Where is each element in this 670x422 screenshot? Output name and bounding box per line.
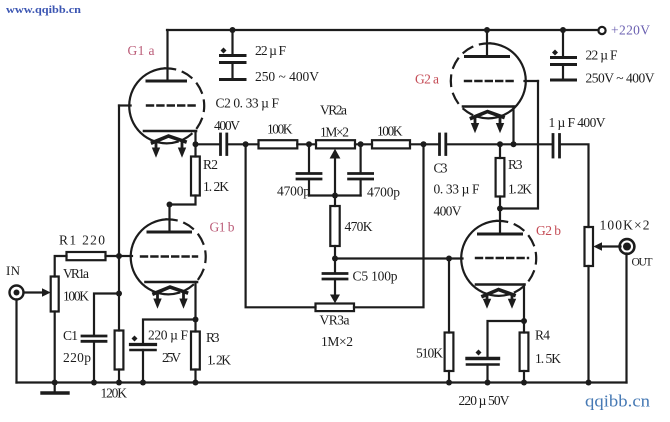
- wire: 510K bottom lead: [448, 371, 450, 383]
- node: rail tap for 22uF left: [230, 27, 236, 33]
- svg-text:VR2a: VR2a: [320, 103, 347, 118]
- svg-text:R2: R2: [203, 157, 218, 172]
- wire: 470K bottom lead: [334, 246, 336, 259]
- resistor R2 1.2K body: [191, 157, 200, 196]
- svg-text:qqibb.cn: qqibb.cn: [585, 392, 651, 411]
- node: output pot on bus: [586, 380, 592, 386]
- terminal IN: [10, 286, 24, 300]
- svg-text:G2 a: G2 a: [415, 72, 439, 87]
- wire: main signal line G1a cathode to C2: [196, 143, 220, 145]
- triode G2a grid (dashed): [465, 80, 516, 82]
- node: rail tap for G2a plate: [484, 27, 490, 33]
- capacitor C1 220p: [82, 336, 106, 383]
- wire: G2a grid stub right: [525, 80, 539, 82]
- capacitor C3 0.33uF plates: [440, 134, 446, 155]
- wire: grid bus down to R1 node: [118, 106, 120, 257]
- wire: C2-node down to VR3a left: [246, 144, 316, 307]
- node: G1a cathode junction: [193, 141, 199, 147]
- wire: C3 to G2a cathode node: [447, 143, 552, 145]
- node: C3 input junction: [421, 141, 427, 147]
- triode G2b envelope: [461, 221, 536, 296]
- svg-text:100K×2: 100K×2: [600, 218, 650, 233]
- wire: grid bus down to 120K: [118, 256, 120, 331]
- wire: VR1a top to R1: [55, 256, 67, 277]
- node: rail tap for 22uF right: [560, 27, 566, 33]
- wire: +220V top supply rail: [167, 29, 599, 31]
- wire: 470K top lead: [334, 196, 336, 207]
- svg-text:IN: IN: [6, 263, 21, 278]
- wire: R2 top lead: [194, 144, 196, 156]
- capacitor 1uF 400V plates: [553, 135, 560, 158]
- wire: G1b cathode drop: [194, 282, 196, 320]
- terminal OUT: [620, 239, 635, 254]
- wire: IN down to ground bus: [15, 300, 17, 383]
- svg-text:22 µ F: 22 µ F: [255, 43, 286, 58]
- svg-text:250 ~ 400V: 250 ~ 400V: [255, 69, 319, 84]
- svg-text:1. 5K: 1. 5K: [535, 351, 561, 366]
- potentiometer VR1a 100K body: [51, 277, 59, 312]
- wire: R3 left bottom lead: [194, 370, 196, 383]
- svg-text:R3: R3: [508, 157, 523, 172]
- triode G1a cathode bar: [144, 130, 196, 133]
- svg-text:C3: C3: [434, 161, 448, 176]
- triode G1a filament tent: [153, 136, 186, 143]
- node: C1 tap: [116, 291, 122, 297]
- svg-text:www.qqibb.cn: www.qqibb.cn: [6, 4, 81, 16]
- svg-text:220 µ 50V: 220 µ 50V: [459, 393, 510, 408]
- node: G1b plate junction: [167, 202, 173, 208]
- svg-text:220 µ F: 220 µ F: [148, 328, 188, 343]
- wire: G1a plate lead from rail: [166, 30, 168, 81]
- node: 510K on bus: [446, 380, 452, 386]
- node: R3 right top: [497, 141, 503, 147]
- svg-text:1M×2: 1M×2: [320, 125, 349, 140]
- triode G2a cathode arrows: [471, 117, 504, 134]
- capacitor C2 0.33uF plates: [221, 134, 227, 155]
- resistor R4 1.5K body: [520, 333, 529, 372]
- svg-text:OUT: OUT: [632, 257, 653, 269]
- triode G1a envelope: [129, 68, 204, 143]
- wire: VR2a to 100K right: [355, 143, 372, 145]
- wire: R4 bottom lead: [523, 371, 525, 383]
- wire: 100K right to C3: [410, 143, 439, 145]
- wire: OUT shield down to bus: [625, 254, 627, 383]
- svg-text:C1: C1: [63, 328, 78, 343]
- svg-text:G1 a: G1 a: [128, 43, 155, 58]
- svg-text:400V: 400V: [214, 118, 240, 133]
- svg-text:100K: 100K: [63, 289, 89, 304]
- wire: R3 left top lead: [194, 320, 196, 332]
- ground symbol: [42, 383, 68, 394]
- capacitor C5 100p: [323, 259, 347, 304]
- svg-text:VR1a: VR1a: [63, 266, 89, 281]
- node: R4 on bus: [521, 380, 527, 386]
- triode G1a plate bar: [147, 80, 186, 83]
- triode G1b cathode bar: [146, 281, 198, 284]
- triode G2b cathode arrows: [483, 295, 516, 309]
- triode G2b cathode bar: [476, 283, 525, 286]
- svg-text:220p: 220p: [63, 350, 91, 365]
- triode G2a filament tent: [472, 112, 504, 119]
- capacitor 22uF left (electrolytic): [221, 30, 246, 80]
- node: G2a cathode tap: [511, 141, 517, 147]
- wire: C1 branch from grid-bus line: [94, 294, 119, 336]
- triode G2a cathode bar: [463, 105, 514, 108]
- svg-text:G2 b: G2 b: [536, 223, 561, 238]
- potentiometer 100Kx2 body: [585, 227, 594, 266]
- svg-text:400V: 400V: [434, 204, 462, 219]
- wire: 1uF to output pot: [561, 144, 589, 227]
- node: 510K top: [446, 256, 452, 262]
- wire: ground bus: [17, 381, 627, 383]
- wire: G1a cathode to main node: [194, 131, 196, 144]
- svg-text:100K: 100K: [267, 122, 293, 137]
- wire: R1 right lead: [106, 255, 120, 257]
- node: C2 output junction: [243, 141, 249, 147]
- resistor 120K body: [115, 331, 124, 370]
- wire: IN to VR1a wiper arrow: [24, 291, 43, 293]
- node: R1 / grids junction: [116, 253, 122, 259]
- svg-text:4700p: 4700p: [277, 184, 310, 199]
- svg-text:4700p: 4700p: [367, 185, 400, 200]
- wire: C3-node down to VR3a right: [354, 144, 424, 307]
- potentiometer VR2a 1Mx2 body: [316, 140, 355, 148]
- node: C1 on bus: [91, 380, 97, 386]
- wire: G2a cathode drop to main line: [512, 107, 514, 145]
- wire: cathode node to 220u cap: [488, 321, 525, 358]
- wire: G2b plate lead: [499, 209, 501, 235]
- node: 220u50V on bus: [485, 380, 491, 386]
- wire: G1b grid stub from node: [119, 255, 132, 257]
- terminal +220V open circle: [598, 27, 605, 34]
- triode G1b cathode arrows: [153, 292, 187, 309]
- wire: G1b plate lead: [168, 205, 170, 233]
- svg-text:25V: 25V: [162, 350, 181, 365]
- svg-text:R4: R4: [535, 328, 550, 343]
- triode G2b grid (dashed): [476, 257, 528, 259]
- wire: 510K top lead: [448, 259, 450, 333]
- wire: G1a grid stub left: [119, 104, 131, 106]
- svg-text:1 µ F 400V: 1 µ F 400V: [549, 115, 606, 130]
- triode G1b plate bar: [148, 231, 191, 234]
- svg-text:1M×2: 1M×2: [321, 334, 353, 349]
- capacitor 22uF right (electrolytic): [552, 30, 576, 80]
- triode G1a cathode arrows: [152, 141, 186, 158]
- triode G1b grid (dashed): [141, 255, 197, 257]
- potentiometer 100Kx2 wiper arrow: [593, 242, 620, 250]
- resistor 510K body: [445, 333, 454, 372]
- node: G1b cathode junction: [193, 317, 199, 323]
- node: C5 / grid-line junction: [332, 256, 338, 262]
- svg-text:+220V: +220V: [611, 23, 650, 38]
- potentiometer VR2a wiper arrow: [330, 149, 341, 196]
- svg-text:470K: 470K: [345, 219, 373, 234]
- node: G2b cathode junction: [521, 318, 527, 324]
- resistor R3 1.2K (right) body: [496, 158, 505, 197]
- svg-text:250V ~ 400V: 250V ~ 400V: [586, 71, 655, 86]
- resistor R3 1.2K (left) body: [191, 332, 200, 370]
- wire: G2b cathode drop: [523, 285, 525, 333]
- triode G1b envelope: [131, 219, 206, 294]
- capacitor 220uF 25V (electrolytic): [131, 336, 156, 383]
- resistor R1 220 body: [67, 252, 106, 260]
- wire: cathode node to 220uF: [143, 320, 196, 345]
- triode G2a plate bar: [466, 55, 509, 58]
- svg-text:C5 100p: C5 100p: [353, 269, 398, 284]
- triode G2a envelope: [451, 43, 526, 118]
- wire: R3 right top lead: [499, 144, 501, 158]
- wire: 120K bottom lead: [118, 370, 120, 383]
- wire: grid feedback down to R3 bottom: [500, 81, 538, 209]
- wire: 100K to VR2a: [297, 143, 316, 145]
- svg-text:1. 2K: 1. 2K: [207, 353, 231, 368]
- potentiometer VR3a 1Mx2 body: [316, 304, 355, 312]
- node: tone network center: [332, 193, 338, 199]
- svg-text:C2 0. 33 µ F: C2 0. 33 µ F: [216, 96, 280, 111]
- wire: C2 to 100K: [228, 143, 259, 145]
- wire: G2a plate lead from rail: [486, 30, 488, 57]
- wire: VR1a bottom to ground bus: [54, 312, 56, 383]
- triode G2b filament tent: [483, 290, 514, 297]
- wire: R2 bottom to G1b plate node: [170, 196, 196, 205]
- node: left 4700p tap: [306, 141, 312, 147]
- triode G1a grid (dashed): [147, 104, 196, 106]
- node: R3 bottom / G2b plate junction: [497, 206, 503, 212]
- triode G1b filament tent: [154, 287, 187, 294]
- svg-text:R1 220: R1 220: [59, 233, 105, 248]
- resistor 100K right body: [372, 140, 410, 148]
- svg-text:100K: 100K: [377, 124, 403, 139]
- resistor 100K left body: [259, 140, 298, 148]
- wire: pot bottom to bus: [587, 266, 589, 383]
- node: VR1a on bus: [52, 380, 58, 386]
- svg-text:510K: 510K: [416, 346, 443, 361]
- wire: R3 right bottom lead: [499, 197, 501, 209]
- node: 120K on bus: [116, 380, 122, 386]
- resistor 470K body: [330, 206, 339, 246]
- wire: grid line 470K node to G2b: [335, 257, 463, 259]
- svg-text:120K: 120K: [101, 386, 128, 401]
- svg-text:22 µ F: 22 µ F: [586, 48, 618, 63]
- capacitor 220u 50V (electrolytic): [467, 350, 499, 383]
- capacitor right 4700p: [349, 144, 373, 195]
- wire: 4700p common bar: [309, 194, 361, 196]
- triode G2b plate bar: [479, 233, 522, 236]
- capacitor left 4700p: [297, 144, 321, 195]
- node: 220uF on bus: [140, 380, 146, 386]
- svg-text:0. 33 µ F: 0. 33 µ F: [434, 182, 480, 197]
- svg-text:R3: R3: [206, 330, 220, 345]
- svg-text:VR3a: VR3a: [320, 313, 350, 328]
- node: right 4700p tap: [358, 141, 364, 147]
- svg-text:G1 b: G1 b: [210, 220, 235, 235]
- node: R3 left on bus: [193, 380, 199, 386]
- svg-text:1. 2K: 1. 2K: [508, 182, 532, 197]
- svg-text:1. 2K: 1. 2K: [203, 179, 229, 194]
